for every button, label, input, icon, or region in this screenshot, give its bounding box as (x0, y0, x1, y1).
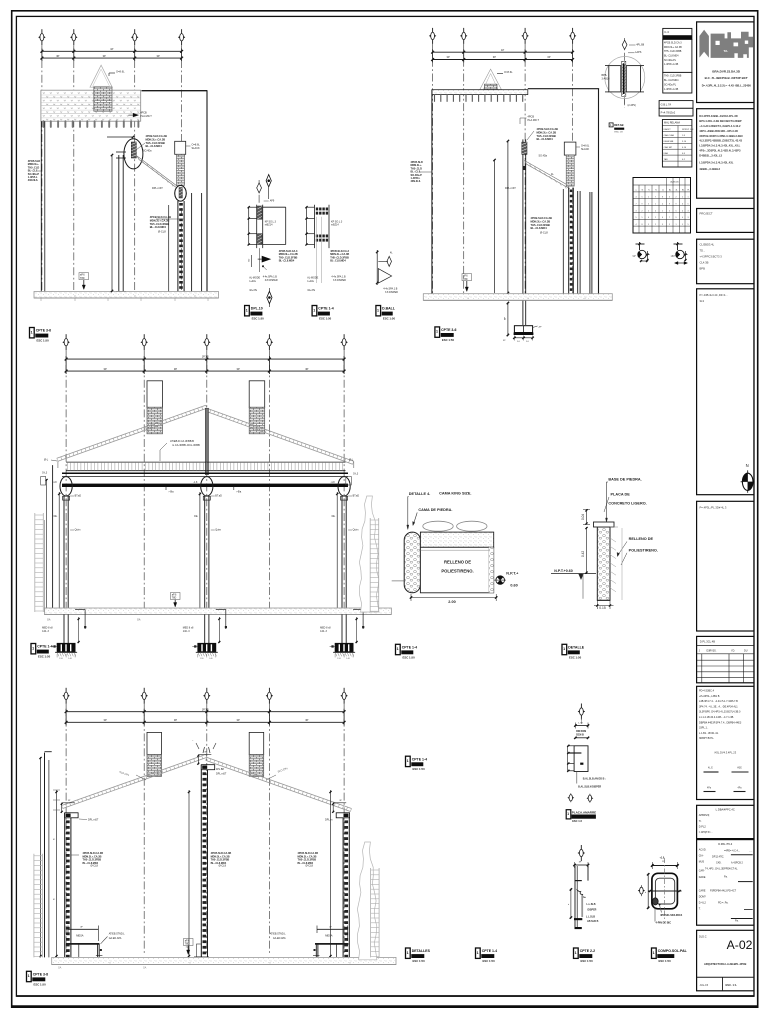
svg-text:1.40: 1.40 (346, 658, 350, 660)
svg-text:ESC 1:50: ESC 1:50 (581, 959, 594, 963)
svg-text:AL: AL (669, 189, 671, 192)
svg-text:BL-.CL8.MD4: BL-.CL8.MD4 (531, 226, 548, 230)
svg-text:3: 3 (669, 197, 670, 199)
svg-text:1: 1 (436, 330, 438, 334)
svg-text:T8D: T8D (172, 597, 177, 600)
svg-text:LAPS: LAPS (635, 51, 642, 54)
svg-text:A-02: A-02 (727, 938, 753, 952)
svg-text:Ø-CL8: Ø-CL8 (306, 865, 314, 868)
svg-text:43N.3L6.: 43N.3L6. (411, 180, 422, 183)
svg-text:CAB.CLAB: CAB.CLAB (664, 134, 675, 137)
svg-text:ESC 1:50: ESC 1:50 (37, 339, 50, 343)
svg-text:T8D: T8D (185, 943, 190, 946)
svg-text:3P: 3P (56, 54, 59, 58)
svg-text:1: 1 (477, 951, 479, 955)
svg-text:ESC 1:50: ESC 1:50 (319, 317, 332, 321)
svg-text:7: 7 (636, 203, 637, 205)
svg-text:DU: DU (744, 650, 748, 653)
svg-text:5: 5 (688, 203, 689, 205)
svg-text:3P: 3P (493, 55, 496, 59)
svg-text:4BB3L.,3.4BBL3: 4BB3L.,3.4BBL3 (699, 167, 720, 171)
svg-text:ARQUITECTURA LA.3B.BPL.4PCB: ARQUITECTURA LA.3B.BPL.4PCB (704, 962, 747, 966)
svg-text:3.8 DISPER: 3.8 DISPER (265, 279, 278, 282)
svg-text:AP9: AP9 (270, 200, 275, 203)
svg-text:TH5-.CLD.3FBB: TH5-.CLD.3FBB (664, 75, 682, 78)
svg-text:1: 1 (28, 974, 30, 978)
svg-text:BL-.CL8.MD4: BL-.CL8.MD4 (537, 137, 554, 141)
svg-text:1: 1 (563, 647, 565, 651)
svg-text:CPTE 1-4: CPTE 1-4 (37, 645, 52, 649)
svg-text:TH5-.CLD.3FBB: TH5-.CLD.3FBB (150, 222, 169, 226)
svg-text:GA.ED.APA: GA.ED.APA (273, 937, 286, 940)
svg-text:140-.3: 140-.3 (183, 630, 190, 633)
svg-text:BRA.DVR.23.DA.3D: BRA.DVR.23.DA.3D (712, 69, 741, 73)
svg-text:TH5-.CLD.3FBB: TH5-.CLD.3FBB (531, 223, 550, 227)
svg-text:9: 9 (642, 203, 643, 205)
svg-text:DE.: DE. (194, 516, 198, 518)
svg-text:+1.0: +1.0 (660, 856, 665, 859)
svg-text:PLA.MD.T: PLA.MD.T (140, 115, 152, 118)
svg-text:5: 5 (648, 203, 649, 205)
svg-text:GA: GA (58, 967, 62, 970)
svg-text:4POS31.SD4.3BC4: 4POS31.SD4.3BC4 (660, 914, 683, 917)
svg-text:ESC 1:50: ESC 1:50 (442, 338, 455, 342)
svg-text:DISPER: DISPER (588, 909, 597, 912)
svg-text:TA.: TA. (724, 49, 729, 53)
svg-text:ESC 1:50: ESC 1:50 (403, 655, 416, 659)
svg-text:CAR-: CAR- (699, 870, 705, 873)
svg-text:CPTE 1-4: CPTE 1-4 (412, 757, 427, 761)
svg-text:SO.4Da.PL: SO.4Da.PL (664, 59, 677, 62)
svg-text:Quim: Quim (353, 529, 359, 532)
svg-text:L3.BPD4.3+L3.4L3.43L.43L: L3.BPD4.3+L3.4L3.43L.43L (699, 161, 733, 165)
svg-text:GA: GA (143, 967, 147, 970)
svg-text:4: 4 (636, 197, 637, 199)
svg-text:O=8.6L: O=8.6L (504, 70, 513, 74)
svg-text:+4.3PPC3.BCT3 3: +4.3PPC3.BCT3 3 (700, 255, 723, 259)
svg-text:1: 1 (653, 951, 655, 955)
svg-text:DE.: DE. (54, 516, 58, 518)
svg-text:APBDV3|: APBDV3| (699, 814, 710, 817)
svg-text:SLACK: SLACK (581, 148, 590, 151)
svg-text:2: 2 (642, 210, 643, 212)
svg-text:L.1.B1. -BV41.41.: L.1.B1. -BV41.41. (699, 732, 719, 735)
svg-text:3P: 3P (237, 367, 240, 371)
svg-text:T.: T. (699, 908, 701, 911)
svg-text:CPTE 1-4: CPTE 1-4 (402, 645, 417, 649)
svg-text:32+4Ts: 32+4Ts (307, 289, 316, 292)
svg-text:1: 1 (397, 647, 399, 651)
svg-text:TD.,: TD., (700, 249, 705, 253)
svg-text:4: 4 (662, 203, 663, 205)
svg-text:3P: 3P (104, 718, 107, 722)
svg-text:LA.3B.DD: LA.3B.DD (670, 181, 679, 184)
svg-text:8: 8 (642, 224, 643, 226)
svg-text:ESC 1:50: ESC 1:50 (569, 655, 582, 659)
svg-text:3DBP7 B37L.: 3DBP7 B37L. (699, 737, 714, 740)
svg-text:4PCB.SLD.CA.3B: 4PCB.SLD.CA.3B (531, 216, 552, 220)
svg-text:1P.3P: 1P.3P (202, 355, 209, 359)
svg-text:DATA.TAB: DATA.TAB (664, 140, 674, 143)
svg-text:1.90: 1.90 (59, 658, 63, 660)
svg-text:L.L.SLB: L.L.SLB (587, 903, 596, 906)
svg-text:+P+DP3L.,L3B1 B: +P+DP3L.,L3B1 B (699, 695, 720, 698)
svg-text:3P: 3P (547, 55, 550, 59)
svg-text:m.CA.3FBB.-DCL.3FBB: m.CA.3FBB.-DCL.3FBB (172, 443, 200, 447)
svg-text:A.43PCB 2: A.43PCB 2 (731, 862, 743, 865)
svg-text:CPTE 3-6: CPTE 3-6 (36, 329, 51, 333)
svg-text:TH5-.CLD.3FBB: TH5-.CLD.3FBB (537, 134, 556, 138)
svg-text:DETALLE 4.: DETALLE 4. (409, 492, 430, 496)
svg-text:T8D: T8D (463, 278, 468, 281)
svg-text:SO: SO (249, 259, 251, 262)
svg-text:CAMA DE PIEDRA.: CAMA DE PIEDRA. (418, 508, 452, 512)
svg-text:0.04: 0.04 (581, 514, 585, 520)
svg-text:5: 5 (648, 210, 649, 212)
svg-text:1: 1 (575, 951, 577, 955)
svg-text:(2-4PS): (2-4PS) (628, 104, 636, 107)
svg-text:1+40s: 1+40s (307, 280, 314, 283)
svg-text:CAMA KING SIZE.: CAMA KING SIZE. (439, 491, 471, 495)
svg-text:PLACA.AMARRE: PLACA.AMARRE (572, 810, 596, 814)
svg-text:5: 5 (676, 210, 677, 212)
svg-text:4PCB.SLD.CA.3B: 4PCB.SLD.CA.3B (537, 127, 558, 131)
svg-text:9: 9 (676, 203, 677, 205)
svg-text:5: 5 (669, 224, 670, 226)
svg-text:140-.3: 140-.3 (42, 630, 49, 633)
svg-text:33PL.1..: 33PL.1.. (699, 727, 709, 730)
svg-text:2: 2 (655, 217, 656, 219)
svg-text:DADE: DADE (699, 876, 706, 879)
svg-text:⌐Φa: ⌐Φa (236, 489, 242, 493)
svg-text:4PL.B8: 4PL.B8 (216, 768, 225, 771)
svg-text:4: 4 (655, 210, 656, 212)
svg-text:CARE: CARE (699, 890, 706, 893)
svg-text:L1.1.4.1B.34.4.14PL. -4.7.1.3B: L1.1.4.1B.34.4.14PL. -4.7.1.3B. (699, 716, 734, 719)
svg-text:7: 7 (669, 217, 670, 219)
svg-text:1: 1 (407, 951, 409, 955)
svg-text:CPTE 1-4: CPTE 1-4 (482, 949, 497, 953)
svg-text:MESA: MESA (76, 933, 84, 937)
svg-text:BT.aD: BT.aD (353, 495, 360, 498)
svg-text:BL: BL (682, 190, 684, 192)
svg-text:DBPB4.44E3P.3P4.7.4., DBPB4.44: DBPB4.44E3P.3P4.7.4., DBPB4.44E3 (699, 721, 742, 724)
svg-text:3P: 3P (157, 54, 160, 58)
svg-text:CLI3BD3.4L: CLI3BD3.4L (700, 243, 715, 247)
svg-text:0.15: 0.15 (599, 606, 606, 610)
svg-text:MESA: MESA (325, 933, 333, 937)
svg-text:4PCB.SLD.CA.3B: 4PCB.SLD.CA.3B (146, 134, 167, 138)
svg-text:ESC 1:50: ESC 1:50 (483, 959, 496, 963)
svg-text:SPRDP 1+8: SPRDP 1+8 (682, 129, 694, 131)
svg-text:T4.,4P3...D4.L.3DPPD4/CT.4L.: T4.,4P3...D4.L.3DPPD4/CT.4L. (705, 868, 738, 871)
svg-text:2.00: 2.00 (448, 600, 455, 604)
svg-text:DAB: DAB (664, 152, 669, 155)
svg-text:9: 9 (662, 224, 663, 226)
svg-text:L3.BPD4.3+L3.4L3.43L.43L.,43.L: L3.BPD4.3+L3.4L3.43L.43L.,43.L (699, 144, 740, 148)
svg-text:ESC 1:8: ESC 1:8 (615, 132, 624, 134)
svg-text:5: 5 (688, 224, 689, 226)
svg-text:4PL.B8: 4PL.B8 (636, 43, 645, 46)
svg-text:D.BALL: D.BALL (382, 307, 396, 311)
svg-text:1: 1 (377, 308, 379, 312)
svg-text:1: 1 (246, 308, 248, 312)
svg-text:CPTE 3-8: CPTE 3-8 (33, 972, 48, 976)
svg-text:CPTE 2-2: CPTE 2-2 (580, 949, 595, 953)
svg-text:BT.aD: BT.aD (215, 495, 222, 498)
svg-text:/43E: /43E (737, 768, 742, 770)
svg-text:180°: 180° (671, 255, 676, 258)
svg-text:N.P.T.+: N.P.T.+ (506, 572, 519, 576)
svg-text:1P: 1P (501, 48, 504, 52)
svg-text:5: 5 (642, 217, 643, 219)
svg-text:.....: ..... (749, 850, 753, 853)
svg-text:1-4P.B.LA.3B: 1-4P.B.LA.3B (664, 88, 679, 91)
svg-text:N.P.T.+0.60: N.P.T.+0.60 (554, 569, 572, 573)
svg-text:BL-.CL8.MD4: BL-.CL8.MD4 (279, 260, 295, 263)
svg-text:1+40s: 1+40s (249, 280, 256, 283)
svg-text:C4D.: C4D. (716, 862, 722, 865)
svg-text:-3P: -3P (538, 327, 542, 329)
svg-text:POLIESTIRENO.: POLIESTIRENO. (629, 549, 658, 553)
svg-text:CL4.3B: CL4.3B (700, 261, 709, 265)
svg-text:PD.=..Pa.: PD.=..Pa. (718, 902, 729, 905)
svg-text:CAB.TAT: CAB.TAT (664, 146, 673, 149)
svg-text:N: N (746, 463, 749, 468)
svg-text:Quim: Quim (215, 529, 221, 532)
svg-text:1: 1 (688, 197, 689, 199)
svg-text:D=.4.3PL.4L.3.2.2L= -4.43 -BB.: D=.4.3PL.4L.3.2.2L= -4.43 -BB.L..23456 (702, 83, 752, 87)
svg-text:3L3: 3L3 (700, 299, 705, 303)
svg-text:BL-.CL8.MD4: BL-.CL8.MD4 (150, 225, 167, 229)
svg-text:3P: 3P (174, 367, 177, 371)
svg-text:G.B.L.7A: G.B.L.7A (661, 103, 672, 107)
svg-text:DET.AB: DET.AB (614, 123, 623, 127)
svg-text:3DPCB.3D3P./4.3PBL3.4BBL3.3BC: 3DPCB.3D3P./4.3PBL3.4BBL3.3BC (699, 134, 743, 138)
svg-text:MDN.3L+.CA.3B: MDN.3L+.CA.3B (664, 46, 682, 49)
svg-text:BL-.CL8.MD4: BL-.CL8.MD4 (664, 55, 679, 58)
svg-text:P3PDPB4.44L3.PD-4CT: P3PDPB4.44L3.PD-4CT (710, 890, 737, 893)
svg-text:5: 5 (642, 197, 643, 199)
svg-text:TL: TL (655, 190, 657, 192)
svg-text:BL-.CL8.MD4: BL-.CL8.MD4 (330, 260, 346, 263)
svg-text:⌐Φa: ⌐Φa (169, 489, 175, 493)
svg-text:RELLENO DE: RELLENO DE (629, 537, 654, 541)
svg-text:P=.4P3L./PL.3D# 4L.3: P=.4P3L./PL.3D# 4L.3 (700, 506, 727, 510)
svg-text:MDN.3L+.CA.3B: MDN.3L+.CA.3B (146, 137, 166, 141)
svg-text:DPL.mST: DPL.mST (505, 187, 516, 190)
svg-text:L.L.SLB: L.L.SLB (586, 915, 595, 918)
svg-text:mBZ14: mBZ14 (265, 224, 273, 227)
svg-text:ATIEB.D.CA.3FBB.B: ATIEB.D.CA.3FBB.B (170, 439, 194, 443)
svg-text:4: 4 (682, 210, 683, 212)
svg-text:PROJECT: PROJECT (700, 212, 713, 216)
svg-text:5: 5 (669, 210, 670, 212)
svg-text:2: 2 (655, 224, 656, 226)
svg-text:MDN.3L+.CA.3B: MDN.3L+.CA.3B (537, 130, 557, 134)
svg-text:CIA-: CIA- (699, 855, 704, 858)
svg-text:ESC 1:50: ESC 1:50 (34, 982, 47, 986)
svg-text:3P4.74. -4.L.3E...4...-DE.4P34: 3P4.74. -4.L.3E...4...-DE.4P34.4L1 (699, 705, 738, 708)
svg-text:1: 1 (662, 210, 663, 212)
svg-text:0.42: 0.42 (581, 551, 585, 557)
svg-text:ESC 1:2: ESC 1:2 (572, 819, 582, 823)
svg-text:4L3.3DP3.43BBB.,D3BCT3L.43.43: 4L3.3DP3.43BBB.,D3BCT3L.43.43 (699, 139, 742, 143)
svg-text:1.90: 1.90 (337, 658, 341, 660)
svg-text:FL: FL (688, 190, 690, 192)
svg-text:3P: 3P (305, 367, 308, 371)
svg-text:3P: 3P (104, 367, 107, 371)
svg-text:DE.: DE. (332, 516, 336, 518)
svg-text:DETALLE: DETALLE (568, 645, 585, 649)
svg-text:ESC 1:50: ESC 1:50 (413, 767, 426, 771)
svg-text:43P3.+DBB.3D3/43D...9PL3.4D: 43P3.+DBB.3D3/43D...9PL3.4D (699, 129, 738, 133)
svg-text:GA: GA (137, 619, 141, 622)
svg-text:90°: 90° (633, 255, 637, 258)
svg-text:8: 8 (662, 197, 663, 199)
svg-text:1P.3P: 1P.3P (202, 707, 209, 711)
svg-text:7: 7 (655, 197, 656, 199)
svg-text:SO.4Da: SO.4Da (539, 155, 548, 158)
svg-text:9: 9 (676, 217, 677, 219)
svg-text:DPL.mST: DPL.mST (88, 819, 99, 822)
svg-text:TH5-.CLD.3FBB: TH5-.CLD.3FBB (664, 50, 682, 53)
svg-text:ATIEB.STND.L: ATIEB.STND.L (270, 933, 287, 936)
svg-text:DETALLES: DETALLES (412, 949, 431, 953)
svg-text:DPL.m: DPL.m (325, 819, 332, 822)
svg-text:BPB: BPB (700, 267, 706, 271)
svg-text:BASE DE PIEDRA.: BASE DE PIEDRA. (608, 478, 641, 482)
svg-text:GA.ED.APA: GA.ED.APA (109, 937, 122, 940)
svg-text:2: 2 (648, 197, 649, 199)
svg-text:PD-4.S3BC.4: PD-4.S3BC.4 (699, 690, 715, 693)
svg-text:D.PL2: D.PL2 (699, 825, 707, 828)
svg-text:1: 1 (655, 203, 656, 205)
svg-text:1: 1 (313, 308, 315, 312)
svg-text:P=.43B.4L3.43.,D3=4...: P=.43B.4L3.43.,D3=4... (700, 293, 728, 297)
svg-text:4Pa: 4Pa (707, 787, 712, 789)
svg-text:6: 6 (682, 203, 683, 205)
svg-text:P+4.78/15x2: P+4.78/15x2 (661, 110, 676, 114)
svg-text:CPTE 1-4: CPTE 1-4 (318, 307, 333, 311)
svg-text:mBZ14: mBZ14 (331, 224, 339, 227)
svg-text:D3.4PP3.43B9L.43/343.4PL.3D: D3.4PP3.43B9L.43/343.4PL.3D (699, 114, 737, 118)
svg-text:3L3P.BP0 .D4.4P3.4.L33.B37L4.3: 3L3P.BP0 .D4.4P3.4.L33.B37L4.3B.0 (699, 711, 741, 714)
svg-text:4-PIN DE BIC: 4-PIN DE BIC (656, 922, 672, 925)
svg-text:+4.3+D4.3DBCT3.,3LBPL4.3.43.2: +4.3+D4.3DBCT3.,3LBPL4.3.43.2 (699, 124, 741, 128)
svg-text:5: 5 (648, 224, 649, 226)
svg-text:3P: 3P (103, 54, 106, 58)
svg-text:ESC 1:50: ESC 1:50 (413, 959, 426, 963)
svg-text:1: 1 (676, 224, 677, 226)
svg-text:1: 1 (32, 646, 34, 650)
svg-text:32+4Ts: 32+4Ts (249, 289, 258, 292)
svg-text:1.40: 1.40 (68, 658, 72, 660)
svg-text:BP3.4.3DL.3.3B 3BC3BCT3.3DBP: BP3.4.3DL.3.3B 3BC3BCT3.3DBP (699, 119, 741, 123)
svg-text:4PCB.SLD.CA.3B: 4PCB.SLD.CA.3B (150, 215, 171, 219)
svg-text:POLIESTIRENO.: POLIESTIRENO. (441, 568, 473, 573)
svg-text:BL-.CL8.MD4: BL-.CL8.MD4 (146, 144, 163, 148)
svg-text:3: 3 (688, 217, 689, 219)
svg-text:COMPO.SOL.PAL: COMPO.SOL.PAL (658, 949, 688, 953)
svg-text:3: 3 (636, 210, 637, 212)
svg-text:Ø-L: Ø-L (349, 459, 354, 462)
svg-text:1: 1 (407, 759, 409, 763)
svg-text:JUL-15: JUL-15 (700, 983, 709, 987)
svg-text:SO.4Da.PL: SO.4Da.PL (664, 83, 677, 86)
svg-text:D.PL.3CL.4B: D.PL.3CL.4B (700, 639, 715, 643)
svg-text:B.AL.SLB.N DISPER: B.AL.SLB.N DISPER (578, 786, 601, 789)
svg-text:CPTE 3-6: CPTE 3-6 (441, 328, 456, 332)
svg-text:6: 6 (648, 217, 649, 219)
svg-text:DPL.mST: DPL.mST (216, 773, 227, 776)
svg-text:DLD.C: DLD.C (699, 936, 707, 939)
svg-text:Tr.: Tr. (699, 820, 702, 823)
svg-text:O-L3: O-L3 (353, 474, 359, 476)
svg-text:BL-.CL8.MD4: BL-.CL8.MD4 (664, 79, 679, 82)
svg-text:9: 9 (669, 203, 670, 205)
svg-text:DPL.10: DPL.10 (251, 307, 263, 311)
svg-text:DIN DCN: DIN DCN (576, 730, 586, 733)
svg-text:Pa.: Pa. (724, 876, 728, 879)
svg-text:=4PD= 4.C.4..,: =4PD= 4.C.4.., (724, 850, 740, 853)
svg-text:ESC. 1:1.: ESC. 1:1. (726, 983, 738, 987)
svg-text:2: 2 (682, 197, 683, 199)
svg-text:4PCB.SLD.CA.3: 4PCB.SLD.CA.3 (664, 42, 682, 45)
svg-text:3P: 3P (305, 718, 308, 722)
svg-text:3: 3 (688, 210, 689, 212)
svg-text:1.90: 1.90 (200, 658, 204, 660)
svg-text:Ø-CL8: Ø-CL8 (540, 231, 548, 235)
svg-text:C-3: C-3 (664, 30, 669, 34)
svg-text:MAL RELAMA: MAL RELAMA (664, 122, 680, 125)
svg-text:ESC 1:50: ESC 1:50 (383, 317, 396, 321)
svg-text:3.8 DISPER: 3.8 DISPER (333, 279, 346, 282)
svg-text:4P3+..3D3P3L.4L3.43D.4L3.43P3: 4P3+..3D3P3L.4L3.43D.4L3.43P3 (699, 149, 741, 153)
svg-text:3P: 3P (447, 55, 450, 59)
svg-text:B.AL.SLB.AN DD B :: B.AL.SLB.AN DD B : (583, 778, 606, 781)
svg-text:DOM?: DOM? (699, 896, 707, 899)
svg-text:/43L.DV4.3.4PL.23: /43L.DV4.3.4PL.23 (714, 751, 736, 755)
svg-text:=.4P3|T3=...: =.4P3|T3=... (699, 831, 713, 834)
svg-text:43N.3L6.: 43N.3L6. (28, 179, 39, 182)
svg-text:PLA.MD.T: PLA.MD.T (528, 119, 540, 122)
svg-text:3.8 DISPER: 3.8 DISPER (385, 291, 398, 294)
svg-text:GA: GA (47, 619, 51, 622)
svg-text:1.40: 1.40 (209, 658, 213, 660)
svg-text:DCN B: DCN B (576, 734, 584, 737)
svg-text:YD.: YD. (731, 650, 735, 653)
svg-text:ESC 1:50: ESC 1:50 (252, 317, 265, 321)
svg-text:-1.8: -1.8 (193, 482, 198, 484)
svg-text:4L.E: 4L.E (708, 768, 713, 770)
svg-text:L4B.3P4.7.4.. -4.44.7L1.7.34PL: L4B.3P4.7.4.. -4.44.7L1.7.34PL7.B (699, 700, 738, 703)
svg-text:Pa.: Pa. (735, 920, 739, 923)
svg-text:DPL.mST: DPL.mST (152, 187, 163, 190)
svg-text:ACUD.: ACUD. (699, 849, 707, 852)
svg-text:D3RV3S.: D3RV3S. (707, 650, 717, 653)
svg-text:0.60: 0.60 (510, 584, 517, 588)
svg-text:1: 1 (31, 330, 33, 334)
svg-text:TAB: TAB (664, 158, 669, 161)
svg-text:1-4P.B.LA.3B: 1-4P.B.LA.3B (664, 63, 679, 66)
svg-text:PLACA DE: PLACA DE (611, 493, 631, 497)
svg-text:2: 2 (676, 197, 677, 199)
svg-text:Ø-CL8: Ø-CL8 (91, 865, 99, 868)
svg-text:ESC 1:50: ESC 1:50 (38, 655, 51, 659)
svg-text:AB SLB B: AB SLB B (587, 920, 599, 923)
svg-text:Ø-CL8: Ø-CL8 (158, 230, 166, 234)
